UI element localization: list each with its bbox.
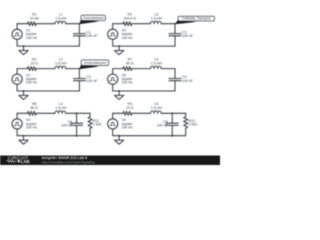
svg-text:100 nF: 100 nF xyxy=(157,123,168,127)
callout flag "Critically_Damped" pointing at output node xyxy=(175,16,215,24)
wire V5 top terminal to top rail xyxy=(112,69,114,75)
svg-text:1.5 mH: 1.5 mH xyxy=(151,106,163,110)
svg-text:Overdamped: Overdamped xyxy=(83,16,104,20)
capacitor C5 (100 nF) xyxy=(166,113,178,135)
svg-text:100 nF: 100 nF xyxy=(86,79,97,83)
label V4 designator and value xyxy=(26,118,37,129)
label V2 designator and value xyxy=(26,74,37,85)
wire R9 to inductor L6 xyxy=(132,112,151,114)
label V5 designator and value xyxy=(122,74,133,85)
svg-text:1 MΩ: 1 MΩ xyxy=(93,123,102,127)
wire bottom rail xyxy=(17,39,79,46)
label C1 designator and value xyxy=(86,30,97,38)
ground xyxy=(19,45,28,55)
resistor R8 (80 Ω) xyxy=(27,111,36,115)
label R10 designator and value xyxy=(189,119,198,126)
svg-text:1 MΩ: 1 MΩ xyxy=(189,123,198,127)
inductor L1 (1.5 mH) xyxy=(55,21,66,24)
callout flag "Overdamped" pointing at output node xyxy=(79,15,105,24)
wire bottom rail xyxy=(113,39,175,46)
wire R7 to inductor L5 xyxy=(132,68,151,70)
wire output node to right branch (R11) xyxy=(77,112,91,114)
wire down right branch to R10 xyxy=(185,113,187,116)
label C6 designator and value (left of cap) xyxy=(61,120,72,128)
ground xyxy=(19,90,28,100)
voltage source V4 (square 100 Hz) xyxy=(12,119,22,129)
voltage source V1 (square 100 Hz) xyxy=(12,29,22,39)
label V3 designator and value xyxy=(122,29,133,40)
footer bar xyxy=(0,156,220,166)
callout flag "Underdamped" pointing at output node xyxy=(79,60,109,69)
inductor L3 (1.5 mH) xyxy=(150,21,161,24)
label R11 designator and value xyxy=(93,119,102,126)
label C5 designator and value (left of cap) xyxy=(157,120,168,128)
wire R11 to bottom rail xyxy=(77,128,91,136)
svg-text:100 Hz: 100 Hz xyxy=(122,125,133,129)
wire R3 to inductor L3 xyxy=(132,23,151,25)
junction dot at bottom of C5 xyxy=(171,135,173,137)
wire R8 to inductor L4 xyxy=(36,112,55,114)
svg-text:Underdamped: Underdamped xyxy=(84,61,107,65)
wire bottom rail xyxy=(113,129,173,136)
wire top rail to resistor R7 xyxy=(113,68,123,70)
wire bottom rail xyxy=(113,84,175,91)
wire output node to right branch (R10) xyxy=(172,112,186,114)
wire top rail to resistor R9 xyxy=(113,112,123,114)
junction dot at top of C5 xyxy=(171,112,173,114)
inductor L4 (1.5 mH) xyxy=(55,111,66,113)
svg-text:100 Hz: 100 Hz xyxy=(26,125,37,129)
resistor R3 (244.9 Ω) xyxy=(123,22,132,26)
capacitor C3 (100 nF) xyxy=(169,24,181,46)
svg-text:100 Hz: 100 Hz xyxy=(122,36,133,40)
label C3 designator and value xyxy=(182,30,193,38)
wire top rail to resistor R1 xyxy=(17,23,27,25)
CircuitLab logo xyxy=(7,156,30,164)
wire L1 to output node xyxy=(66,23,80,25)
ground xyxy=(114,135,123,145)
capacitor C2 (100 nF) xyxy=(73,69,85,91)
svg-text:1.5 mH: 1.5 mH xyxy=(55,106,67,110)
junction dot at bottom of C6 xyxy=(76,135,78,137)
svg-text:244.9 Ω: 244.9 Ω xyxy=(124,16,137,20)
inductor L2 (1.5 mH) xyxy=(55,66,66,69)
wire R10 to bottom rail xyxy=(172,128,186,136)
ground xyxy=(114,45,123,55)
inductor L6 (1.5 mH) xyxy=(150,111,161,113)
wire L6 to output node xyxy=(161,112,172,114)
svg-text:100 Hz: 100 Hz xyxy=(122,81,133,85)
resistor R1 (10 kΩ) xyxy=(27,22,36,26)
svg-text:100 Hz: 100 Hz xyxy=(26,81,37,85)
resistor R7 (80 Ω) xyxy=(123,67,132,71)
resistor R11 (1 MΩ) xyxy=(88,117,92,129)
resistor R2 (10 Ω) xyxy=(27,67,36,71)
svg-text:80 Ω: 80 Ω xyxy=(126,61,134,65)
wire R2 to inductor L2 xyxy=(36,68,55,70)
wire bottom rail xyxy=(17,84,79,91)
svg-text:100 nF: 100 nF xyxy=(86,34,97,38)
svg-text:http://circuitlab.com/c/pkb78q: http://circuitlab.com/c/pkb78qawrby xyxy=(42,160,95,164)
capacitor C4 (100 nF) xyxy=(169,69,181,91)
svg-text:10 Ω: 10 Ω xyxy=(30,61,38,65)
svg-text:100 nF: 100 nF xyxy=(182,34,193,38)
wire R1 to inductor L1 xyxy=(36,23,55,25)
wire L4 to output node xyxy=(66,112,77,114)
wire L5 to output node xyxy=(161,68,175,70)
wire L3 to output node xyxy=(161,23,175,25)
label V6 designator and value xyxy=(122,118,133,129)
svg-text:1.5 mH: 1.5 mH xyxy=(151,61,163,65)
wire top rail to resistor R8 xyxy=(17,112,27,114)
svg-text:10 kΩ: 10 kΩ xyxy=(30,16,40,20)
resistor R10 (1 MΩ) xyxy=(184,117,188,129)
svg-text:100 nF: 100 nF xyxy=(182,79,193,83)
wire down right branch to R11 xyxy=(89,113,91,116)
wire top rail to resistor R3 xyxy=(113,23,123,25)
wire L2 to output node xyxy=(66,68,80,70)
junction dot at top of C6 xyxy=(76,112,78,114)
voltage source V3 (square 100 Hz) xyxy=(108,29,118,39)
wire V4 top terminal to top rail xyxy=(16,113,18,119)
wire V1 top terminal to top rail xyxy=(16,24,18,30)
svg-text:Critically_Damped: Critically_Damped xyxy=(182,17,211,21)
svg-text:1.5 mH: 1.5 mH xyxy=(55,61,67,65)
resistor R9 (10 Ω) xyxy=(123,111,132,115)
wire bottom rail xyxy=(17,129,77,136)
wire V3 top terminal to top rail xyxy=(112,24,114,30)
voltage source V6 (square 100 Hz) xyxy=(108,119,118,129)
label C2 designator and value xyxy=(86,75,97,83)
capacitor C1 (100 nF) xyxy=(73,24,85,46)
label C4 designator and value xyxy=(182,75,193,83)
svg-text:LAB: LAB xyxy=(21,159,30,164)
voltage source V2 (square 100 Hz) xyxy=(12,74,22,84)
label V1 designator and value xyxy=(26,29,37,40)
svg-text:80 Ω: 80 Ω xyxy=(30,106,38,110)
svg-text:100 Hz: 100 Hz xyxy=(26,36,37,40)
ground xyxy=(19,135,28,145)
wire top rail to resistor R2 xyxy=(17,68,27,70)
wire V2 top terminal to top rail xyxy=(16,69,18,75)
capacitor C6 (100 nF) xyxy=(71,113,83,135)
svg-text:1.5 mH: 1.5 mH xyxy=(55,16,67,20)
ground xyxy=(114,90,123,100)
wire V6 top terminal to top rail xyxy=(112,113,114,119)
inductor L5 (1.5 mH) xyxy=(150,66,161,69)
svg-text:1.5 mH: 1.5 mH xyxy=(151,16,163,20)
svg-text:10 Ω: 10 Ω xyxy=(126,106,134,110)
svg-text:100 nF: 100 nF xyxy=(61,123,72,127)
voltage source V5 (square 100 Hz) xyxy=(108,74,118,84)
